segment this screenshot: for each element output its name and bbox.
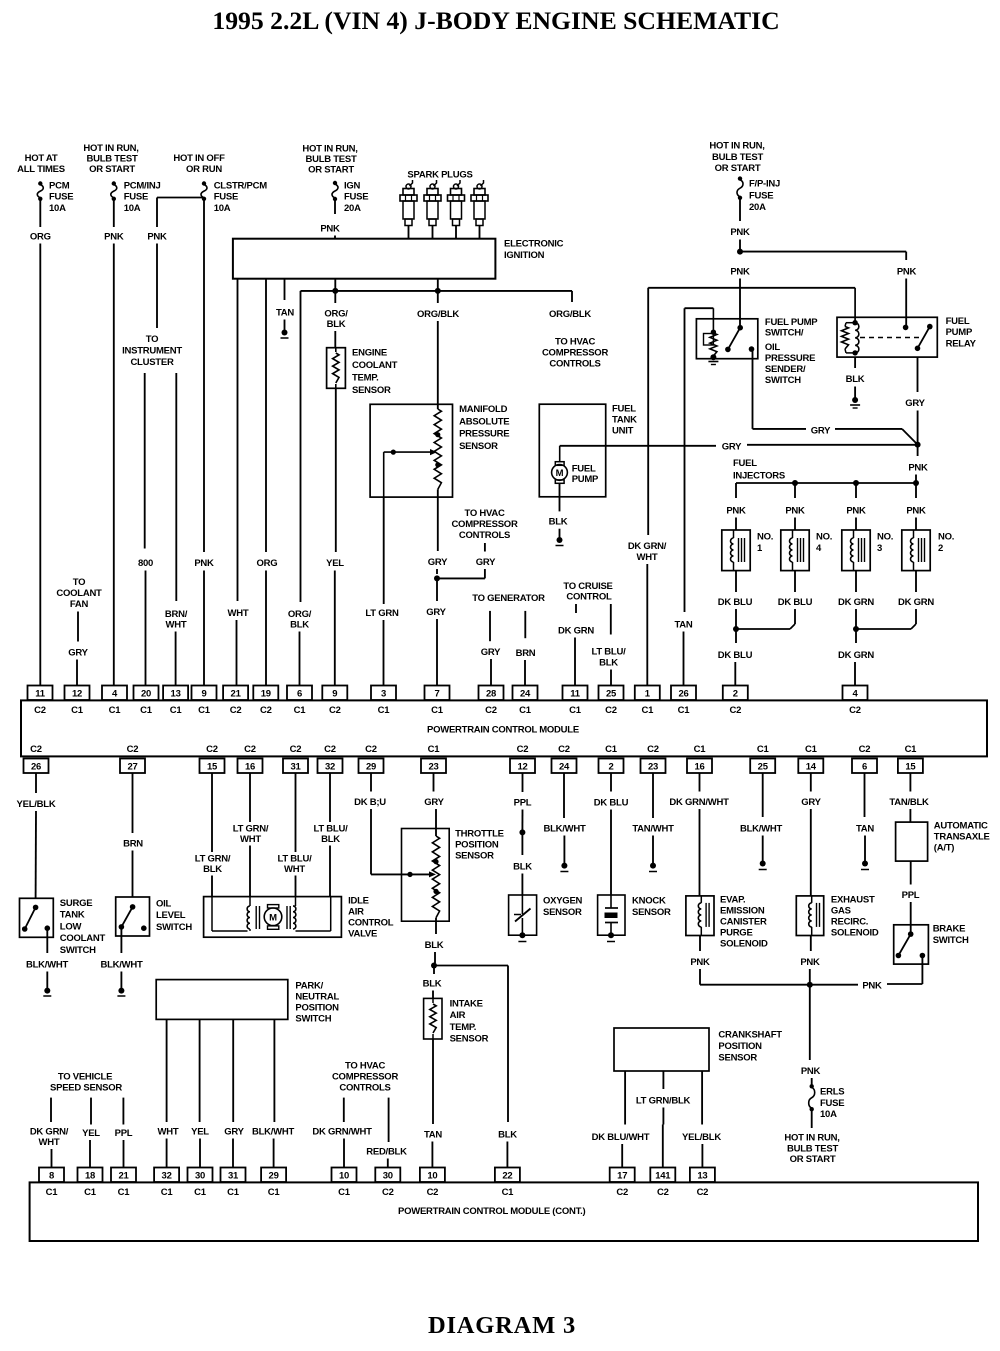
pin 15 C1 bottom [898, 744, 923, 773]
wire DK BLU injector 1 [718, 571, 753, 629]
svg-text:13: 13 [697, 1171, 707, 1182]
svg-text:INJECTORS: INJECTORS [733, 471, 785, 482]
svg-text:BLK: BLK [425, 940, 444, 951]
svg-text:FAN: FAN [70, 599, 89, 610]
svg-text:F/P-INJ: F/P-INJ [749, 179, 780, 190]
fuel tank unit [539, 404, 637, 497]
node TO GENERATOR [472, 593, 545, 604]
pin 21 C2 top [223, 686, 248, 717]
svg-text:PNK: PNK [785, 506, 805, 517]
wire ORG/BLK bus [301, 288, 573, 294]
svg-text:CONTROLS: CONTROLS [339, 1083, 390, 1094]
svg-text:PNK: PNK [846, 506, 866, 517]
svg-text:20: 20 [141, 689, 151, 700]
svg-text:HOT IN RUN,: HOT IN RUN, [784, 1133, 839, 1144]
wire LT GRN/BLK to IAC [195, 773, 231, 897]
svg-text:TRANSAXLE: TRANSAXLE [934, 832, 990, 843]
svg-text:15: 15 [905, 762, 916, 773]
svg-text:IGN: IGN [344, 181, 361, 192]
svg-text:PNK: PNK [690, 957, 710, 968]
svg-text:C1: C1 [227, 1187, 240, 1198]
wire GRY relay output [905, 357, 925, 445]
automatic transaxle [896, 821, 990, 862]
svg-text:SENSOR: SENSOR [459, 441, 498, 452]
park/neutral position switch [156, 980, 339, 1025]
svg-text:3: 3 [381, 689, 386, 700]
svg-text:IDLE: IDLE [348, 896, 369, 907]
svg-text:C2: C2 [517, 744, 529, 755]
fuel pump switch / oil pressure sender [696, 308, 818, 386]
wire DK GRN/WHT to evap solenoid [669, 773, 729, 896]
svg-text:OXYGEN: OXYGEN [543, 896, 583, 907]
svg-text:C2: C2 [849, 705, 861, 716]
pin 18 C1 lower [78, 1168, 103, 1199]
svg-text:12: 12 [517, 762, 527, 773]
svg-text:PNK: PNK [194, 558, 214, 569]
svg-text:C2: C2 [230, 705, 242, 716]
svg-text:BRN: BRN [516, 648, 536, 659]
wire 800 to pin 20 [138, 373, 153, 686]
svg-text:C1: C1 [46, 1187, 59, 1198]
svg-text:24: 24 [520, 689, 531, 700]
svg-text:ORG: ORG [30, 232, 51, 243]
svg-text:3: 3 [877, 543, 882, 554]
node TO VEHICLE SPEED SENSOR [50, 1072, 122, 1094]
wire PNK distribution [740, 252, 906, 260]
svg-text:TEMP.: TEMP. [352, 373, 379, 384]
crankshaft position sensor [614, 1028, 782, 1071]
svg-text:9: 9 [201, 689, 206, 700]
svg-text:C1: C1 [109, 705, 122, 716]
svg-text:LT GRN/: LT GRN/ [195, 854, 231, 865]
pin 10 C1 lower [332, 1168, 357, 1199]
svg-text:6: 6 [862, 762, 867, 773]
svg-text:C2: C2 [605, 705, 617, 716]
svg-text:OIL: OIL [156, 899, 172, 910]
svg-text:SPEED SENSOR: SPEED SENSOR [50, 1083, 122, 1094]
oil level switch [116, 897, 193, 936]
wire BLK/WHT surge tank ground [26, 930, 68, 996]
wire BRN to oil level switch [123, 773, 143, 897]
svg-text:BLK/WHT: BLK/WHT [100, 960, 142, 971]
svg-text:8: 8 [49, 1171, 54, 1182]
svg-text:SWITCH/: SWITCH/ [765, 328, 804, 339]
svg-text:26: 26 [31, 762, 41, 773]
svg-text:AUTOMATIC: AUTOMATIC [934, 821, 988, 832]
wire PNK injector 3 [846, 483, 866, 530]
svg-text:TO HVAC: TO HVAC [345, 1061, 386, 1072]
svg-text:10A: 10A [49, 203, 66, 214]
wire GRY to TPS [424, 773, 444, 836]
svg-text:TEMP.: TEMP. [450, 1022, 477, 1033]
svg-text:YEL: YEL [191, 1127, 209, 1138]
svg-text:ORG/BLK: ORG/BLK [549, 309, 591, 320]
svg-text:10A: 10A [214, 203, 231, 214]
svg-text:TO HVAC: TO HVAC [464, 508, 505, 519]
svg-text:RED/BLK: RED/BLK [366, 1147, 407, 1158]
svg-text:32: 32 [325, 762, 335, 773]
electronic ignition module [233, 239, 564, 279]
power label HOT IN RUN BULB TEST OR START (middle) [302, 144, 357, 176]
spark plug 2 [424, 180, 441, 239]
svg-text:BLK: BLK [327, 319, 346, 330]
pin 32 C1 lower [154, 1168, 179, 1199]
caption DIAGRAM 3 [428, 1312, 576, 1339]
svg-text:26: 26 [678, 689, 688, 700]
svg-text:C1: C1 [431, 705, 444, 716]
svg-text:16: 16 [694, 762, 704, 773]
wire GRY branch to HVAC compressor [437, 508, 518, 578]
fuse PCM FUSE 10A [37, 181, 73, 214]
svg-text:TAN/BLK: TAN/BLK [889, 797, 929, 808]
svg-text:MANIFOLD: MANIFOLD [459, 404, 508, 415]
svg-text:C1: C1 [268, 1187, 281, 1198]
svg-text:C2: C2 [382, 1187, 394, 1198]
svg-text:10: 10 [339, 1171, 349, 1182]
svg-text:21: 21 [231, 689, 242, 700]
wire DK GRN/WHT to pin 8 [30, 1098, 69, 1168]
svg-text:PPL: PPL [115, 1128, 133, 1139]
svg-text:DIAGRAM 3: DIAGRAM 3 [428, 1312, 576, 1339]
svg-text:PNK: PNK [104, 232, 124, 243]
svg-text:30: 30 [195, 1171, 205, 1182]
spark plug 3 [448, 180, 465, 239]
wire BRN/WHT to pin 13 [165, 373, 188, 686]
pin 27 C2 bottom [120, 744, 145, 773]
svg-text:COMPRESSOR: COMPRESSOR [451, 519, 518, 530]
pin 24 C1 top [513, 686, 538, 717]
wire PNK to injectors [908, 445, 928, 483]
svg-text:22: 22 [502, 1171, 512, 1182]
oxygen sensor [509, 895, 583, 942]
svg-text:PNK: PNK [862, 981, 882, 992]
svg-text:ABSOLUTE: ABSOLUTE [459, 416, 509, 427]
svg-text:HOT IN RUN,: HOT IN RUN, [709, 141, 764, 152]
svg-text:SENSOR: SENSOR [632, 907, 671, 918]
wire DK BLU to pin 2 [718, 629, 753, 686]
svg-text:PUMP: PUMP [572, 474, 599, 485]
svg-text:C1: C1 [519, 705, 532, 716]
svg-text:C1: C1 [161, 1187, 174, 1198]
svg-text:RELAY: RELAY [946, 339, 977, 350]
pin 29 C2 bottom [359, 744, 384, 773]
svg-text:BRN: BRN [123, 839, 143, 850]
wire DK GRN to pin 4 [838, 629, 874, 686]
wire TAN pin 6 ground [856, 773, 874, 870]
svg-text:PNK: PNK [730, 267, 750, 278]
svg-text:6: 6 [297, 689, 302, 700]
svg-text:BLK: BLK [498, 1130, 517, 1141]
wire YEL to pin 18 [82, 1098, 100, 1168]
svg-text:19: 19 [261, 689, 271, 700]
idle air control valve [204, 896, 394, 940]
pin 3 C1 top [371, 686, 396, 717]
svg-text:LT BLU/: LT BLU/ [278, 854, 313, 865]
exhaust gas recirc solenoid [796, 895, 879, 939]
svg-text:HOT IN RUN,: HOT IN RUN, [83, 143, 138, 154]
powertrain control module cont [30, 1182, 978, 1241]
wire PPL to pin 21 [115, 1098, 133, 1168]
pin 13 C2 lower [690, 1168, 715, 1199]
svg-text:COMPRESSOR: COMPRESSOR [332, 1072, 399, 1083]
wire BLK/WHT pin 25 ground [740, 773, 782, 870]
svg-text:DK BLU: DK BLU [718, 597, 753, 608]
svg-text:C1: C1 [118, 1187, 131, 1198]
svg-text:M: M [269, 913, 277, 924]
svg-text:TO: TO [146, 334, 159, 345]
svg-text:IGNITION: IGNITION [504, 250, 545, 261]
svg-text:10: 10 [427, 1171, 437, 1182]
svg-text:14: 14 [806, 762, 817, 773]
svg-text:C2: C2 [127, 744, 139, 755]
svg-text:PPL: PPL [902, 890, 920, 901]
svg-text:WHT: WHT [240, 834, 261, 845]
wire BLK/WHT park/neutral to pin 29 [252, 1019, 294, 1167]
svg-text:ALL TIMES: ALL TIMES [17, 164, 65, 175]
wire PNK CLSTR fuse to pin 9 [194, 199, 214, 686]
svg-text:29: 29 [366, 762, 376, 773]
svg-text:NO.: NO. [877, 532, 893, 543]
svg-text:THROTTLE: THROTTLE [455, 829, 504, 840]
wire ORG/BLK to pin 6 [288, 291, 312, 686]
wire BRN to pin 24 [516, 611, 536, 686]
wire LT GRN/BLK to pin 141 [636, 1071, 691, 1168]
svg-text:7: 7 [434, 689, 439, 700]
label SPARK PLUGS [407, 170, 472, 181]
svg-text:CONTROL: CONTROL [566, 592, 612, 603]
wire BLK/WHT pin 24 ground [543, 773, 585, 872]
svg-text:BLK/WHT: BLK/WHT [26, 960, 68, 971]
pin 29 C1 lower [261, 1168, 286, 1199]
svg-text:C2: C2 [558, 744, 570, 755]
svg-text:RECIRC.: RECIRC. [831, 917, 868, 928]
svg-text:20A: 20A [749, 202, 766, 213]
wire GRY fuel tank to junction [560, 442, 921, 453]
svg-text:TAN: TAN [276, 308, 294, 319]
svg-text:PNK: PNK [801, 1066, 821, 1077]
svg-text:PNK: PNK [730, 227, 750, 238]
wire PNK evap to bus [690, 936, 710, 985]
svg-text:BLK: BLK [549, 517, 568, 528]
svg-text:EXHAUST: EXHAUST [831, 895, 875, 906]
pin 9 C1 top [192, 686, 217, 717]
svg-text:SENSOR: SENSOR [450, 1034, 489, 1045]
svg-text:FUEL: FUEL [733, 458, 757, 469]
svg-text:HOT IN OFF: HOT IN OFF [173, 153, 225, 164]
svg-text:C1: C1 [502, 1187, 515, 1198]
svg-text:WHT: WHT [166, 620, 187, 631]
svg-text:NO.: NO. [757, 532, 773, 543]
svg-text:C2: C2 [290, 744, 302, 755]
svg-text:SOLENOID: SOLENOID [831, 928, 879, 939]
svg-text:25: 25 [606, 689, 617, 700]
svg-text:CONTROLS: CONTROLS [549, 359, 600, 370]
pin 32 C2 bottom [318, 744, 343, 773]
pin 6 C2 bottom [852, 744, 877, 773]
wire TAN/BLK to transaxle [889, 773, 929, 822]
wire LT BLU/WHT to IAC [278, 773, 313, 897]
wire PNK bus [700, 956, 922, 992]
svg-text:ORG/BLK: ORG/BLK [417, 309, 459, 320]
svg-text:LT GRN/: LT GRN/ [233, 824, 269, 835]
pin 13 C1 top [163, 686, 188, 717]
svg-text:OR START: OR START [715, 163, 761, 174]
svg-text:WHT: WHT [39, 1137, 60, 1148]
wire DK GRN injector 2 merge [853, 571, 934, 632]
svg-text:PRESSURE: PRESSURE [765, 353, 815, 364]
manifold absolute pressure sensor [370, 404, 509, 497]
spark plug 4 [471, 180, 488, 239]
wire BLK relay ground [846, 357, 865, 408]
svg-text:BLK: BLK [290, 620, 309, 631]
pin 30 C2 lower [375, 1168, 400, 1199]
svg-text:C1: C1 [905, 744, 918, 755]
node TO CRUISE CONTROL [563, 581, 612, 603]
svg-text:SOLENOID: SOLENOID [720, 939, 768, 950]
fuel pump relay [837, 288, 977, 357]
svg-text:PUMP: PUMP [946, 327, 973, 338]
svg-text:CRANKSHAFT: CRANKSHAFT [718, 1030, 782, 1041]
svg-text:WHT: WHT [637, 552, 658, 563]
pin 28 C2 top [479, 686, 504, 717]
pin 12 C1 top [65, 686, 90, 717]
svg-text:BLK: BLK [321, 834, 340, 845]
svg-text:C1: C1 [84, 1187, 97, 1198]
svg-text:BLK: BLK [513, 862, 532, 873]
pin 1 C1 top [635, 686, 660, 717]
svg-text:SURGE: SURGE [60, 898, 93, 909]
svg-text:FUSE: FUSE [214, 192, 238, 203]
power label HOT IN OFF OR RUN [173, 153, 225, 175]
wire ORG/BLK to coolant temp sensor [324, 279, 348, 348]
svg-text:C1: C1 [140, 705, 153, 716]
pin 6 C1 top [287, 686, 312, 717]
pin 25 C1 bottom [750, 744, 775, 773]
wire BLK/WHT oil level ground [100, 927, 142, 996]
svg-text:C1: C1 [428, 744, 441, 755]
svg-text:SWITCH: SWITCH [60, 945, 96, 956]
svg-text:NEUTRAL: NEUTRAL [295, 992, 339, 1003]
svg-text:C2: C2 [260, 705, 272, 716]
svg-text:BULB TEST: BULB TEST [787, 1144, 839, 1155]
svg-text:PARK/: PARK/ [295, 981, 323, 992]
pin 4 C2 top [843, 686, 868, 717]
svg-text:SENSOR: SENSOR [718, 1053, 757, 1064]
svg-text:POWERTRAIN CONTROL MODULE: POWERTRAIN CONTROL MODULE [427, 725, 579, 736]
svg-text:C2: C2 [859, 744, 871, 755]
wire YEL/BLK to surge tank switch [17, 773, 56, 898]
svg-text:C1: C1 [194, 1187, 207, 1198]
svg-text:NO.: NO. [938, 532, 954, 543]
svg-text:POSITION: POSITION [455, 840, 499, 851]
svg-text:FUSE: FUSE [344, 192, 368, 203]
power label HOT AT ALL TIMES [17, 153, 65, 175]
pin 31 C1 lower [221, 1168, 246, 1199]
svg-text:BRN/: BRN/ [165, 609, 188, 620]
svg-text:25: 25 [758, 762, 769, 773]
svg-text:GRY: GRY [428, 557, 448, 568]
svg-text:UNIT: UNIT [612, 426, 634, 437]
svg-text:C1: C1 [71, 705, 84, 716]
svg-text:FUSE: FUSE [820, 1098, 844, 1109]
node TO HVAC COMPRESSOR CONTROLS (lower) [332, 1061, 399, 1094]
svg-text:DK GRN/WHT: DK GRN/WHT [312, 1127, 372, 1138]
svg-text:YEL: YEL [82, 1128, 100, 1139]
svg-text:SWITCH: SWITCH [933, 935, 969, 946]
svg-text:(A/T): (A/T) [934, 843, 954, 854]
svg-text:23: 23 [428, 762, 438, 773]
fuel pump motor [552, 446, 599, 485]
svg-text:HOT IN RUN,: HOT IN RUN, [302, 144, 357, 155]
svg-text:TO HVAC: TO HVAC [555, 337, 596, 348]
wire ORG/BLK to MAP sensor [417, 279, 459, 409]
pin 8 C1 lower [39, 1168, 64, 1199]
pin 15 C2 bottom [200, 744, 225, 773]
injector NO.4 [781, 530, 832, 571]
svg-text:LT GRN: LT GRN [365, 608, 399, 619]
svg-text:C2: C2 [485, 705, 497, 716]
pin 4 C1 top [102, 686, 127, 717]
svg-text:BLK/WHT: BLK/WHT [740, 824, 782, 835]
svg-text:TAN/WHT: TAN/WHT [632, 824, 674, 835]
svg-text:21: 21 [118, 1171, 129, 1182]
svg-text:SPARK PLUGS: SPARK PLUGS [407, 170, 472, 181]
svg-text:LT BLU/: LT BLU/ [592, 647, 627, 658]
svg-text:BLK/WHT: BLK/WHT [252, 1127, 294, 1138]
svg-text:SENSOR: SENSOR [455, 851, 494, 862]
svg-text:EVAP.: EVAP. [720, 895, 745, 906]
pin 17 C2 lower [610, 1168, 635, 1199]
fuse PCM/INJ FUSE 10A [111, 181, 161, 214]
svg-text:BULB TEST: BULB TEST [86, 154, 138, 165]
wire GRY MAP to pin 7 [426, 489, 448, 685]
svg-text:2: 2 [733, 689, 738, 700]
svg-text:CLUSTER: CLUSTER [130, 357, 174, 368]
svg-text:PCM: PCM [49, 181, 70, 192]
svg-text:POSITION: POSITION [295, 1003, 339, 1014]
throttle position sensor [402, 829, 504, 922]
svg-text:C1: C1 [198, 705, 211, 716]
svg-text:OIL: OIL [765, 342, 781, 353]
svg-text:FUEL: FUEL [612, 404, 636, 415]
wire TAN oil sender to pin 26 [674, 308, 713, 685]
svg-text:FUSE: FUSE [124, 192, 148, 203]
svg-text:DK GRN/: DK GRN/ [628, 541, 667, 552]
svg-text:SWITCH: SWITCH [295, 1014, 331, 1025]
svg-text:SENSOR: SENSOR [543, 907, 582, 918]
svg-text:CANISTER: CANISTER [720, 917, 767, 928]
evap emission canister purge solenoid [686, 895, 768, 950]
svg-text:SENSOR: SENSOR [352, 385, 391, 396]
injector NO.3 [842, 530, 893, 571]
wire TAN to pin 10 [424, 1039, 442, 1168]
fuse F/P-INJ FUSE 20A [737, 176, 780, 213]
wire BLK to intake air temp sensor [423, 966, 442, 999]
svg-text:OR RUN: OR RUN [186, 164, 222, 175]
svg-text:TO CRUISE: TO CRUISE [563, 581, 612, 592]
svg-text:C1: C1 [694, 744, 707, 755]
pin 26 C1 top [671, 686, 696, 717]
wire PNK to ERLS fuse [801, 985, 821, 1087]
svg-text:TANK: TANK [612, 415, 637, 426]
wire DK GRN injector 3 [838, 571, 874, 629]
svg-text:FUEL: FUEL [572, 464, 596, 475]
svg-text:C1: C1 [294, 705, 307, 716]
wire WHT ignition to pin 21 [228, 279, 249, 686]
pin 25 C2 top [599, 686, 624, 717]
svg-text:WHT: WHT [284, 864, 305, 875]
svg-text:C2: C2 [647, 744, 659, 755]
